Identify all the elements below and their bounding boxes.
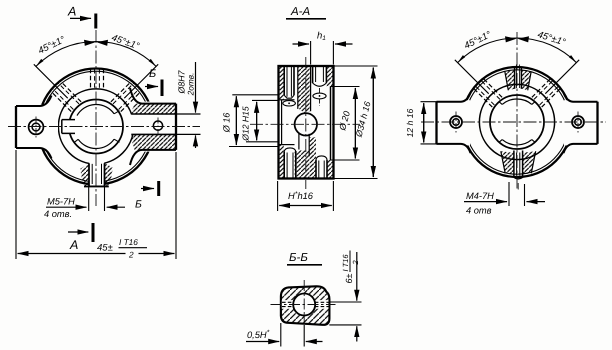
right ear Ø8 hole band blank: [125, 115, 176, 135]
svg-text:4 отв: 4 отв: [466, 206, 492, 216]
label A lower: [69, 238, 78, 252]
label M4-7H: [466, 191, 494, 216]
right view boss circle: [479, 84, 554, 159]
left view horizontal centerline: [8, 126, 200, 128]
right view bore circle: [490, 95, 544, 149]
right view vertical centerline: [516, 32, 518, 191]
A-A internal horizontal edges (bore steps): [279, 100, 295, 145]
section B-B body: [281, 286, 330, 325]
right view left ear blank: [434, 100, 470, 145]
right view upper-left 45deg M4 hole hidden lines: [473, 78, 503, 108]
svg-text:М5-7Н: М5-7Н: [47, 197, 75, 207]
left ear hole: [29, 117, 44, 138]
svg-text:А-А: А-А: [290, 6, 311, 18]
svg-text:0,5Н*: 0,5Н*: [247, 330, 270, 341]
svg-text:I T16: I T16: [341, 254, 350, 272]
right view right ear blank: [564, 100, 600, 145]
right ear outline: [130, 88, 176, 165]
svg-text:Ø 20: Ø 20: [337, 110, 352, 132]
A-A channel below circle: [299, 133, 309, 156]
right view left ear hole: [450, 112, 462, 133]
A-A bottom-left M5 hole: [284, 148, 296, 178]
bottom M5 section hatch left: [81, 163, 90, 186]
dimension Ø16: [229, 95, 279, 147]
svg-text:12 h 16: 12 h 16: [405, 108, 415, 137]
A-A bottom-right M5 hole: [316, 156, 327, 178]
label 0.5H*: [247, 330, 270, 341]
A-A hatch middle band: [298, 67, 311, 114]
right view horizontal centerline: [421, 121, 606, 123]
section plane B lower trace: [141, 181, 159, 196]
dimension 45 +- IT16/2: [16, 150, 176, 259]
bottom M5 section hatch right: [105, 163, 113, 186]
svg-text:Н*h16: Н*h16: [288, 191, 314, 201]
section plane B upper trace: [145, 80, 162, 97]
right view right ear hole: [572, 112, 584, 133]
bottom M5 hole blank: [89, 161, 104, 186]
svg-text:Ø12 Н15: Ø12 Н15: [241, 106, 251, 142]
bottom M5 hole walls and flat: [84, 163, 109, 186]
right ear section hatch bottom: [131, 134, 176, 150]
left view 45deg boundary lines: [34, 64, 158, 98]
svg-text:2: 2: [351, 260, 360, 266]
label Ø8H7 2otv: [177, 69, 196, 96]
label M5-7H: [44, 197, 75, 220]
left view bore inner relief arcs: [74, 104, 120, 148]
A-A centre cross-hole circle: [295, 113, 317, 135]
right view bottom M4 hole walls: [514, 151, 523, 190]
dimension Ø20: [331, 87, 360, 161]
right view 45deg boundary lines: [455, 60, 579, 94]
right view bore relief arcs: [499, 99, 536, 145]
left view chamfer circle: [41, 71, 152, 182]
A-A hatch left sliver top: [279, 67, 284, 100]
B-B hole channel blank: [282, 300, 329, 309]
section plane A upper trace: [70, 14, 96, 29]
dimension Ø34h16: [334, 66, 378, 179]
svg-text:6±: 6±: [344, 273, 354, 283]
svg-text:45°±1°: 45°±1°: [110, 32, 141, 52]
left view bore circle: [69, 100, 123, 154]
label Ø20: [337, 110, 352, 132]
svg-text:I T16: I T16: [119, 237, 138, 247]
A-A hatch right sliver top: [327, 67, 334, 87]
right view top M4 section hatch strips: [505, 70, 531, 90]
label 45 +- IT16/2: [97, 237, 147, 260]
right view angle dimension arc: [458, 36, 577, 62]
right view label 45 deg left: [462, 29, 493, 52]
label B upper: [149, 68, 156, 80]
B-B vertical centerline: [303, 280, 305, 325]
section plane A lower trace: [68, 223, 93, 242]
label 12h16: [405, 108, 415, 137]
label H* h16: [288, 191, 314, 201]
right view upper-right 45deg M4 hole hidden lines: [532, 78, 562, 108]
right view right ear outline: [564, 93, 598, 154]
right view top M4 hole walls: [515, 67, 522, 89]
dimension line Ø8H7: [176, 62, 201, 148]
label B lower: [135, 199, 142, 211]
right view bottom M4 section hatch strips: [501, 151, 536, 174]
title A-A: [286, 6, 326, 19]
svg-text:Ø34 h 16: Ø34 h 16: [353, 100, 372, 139]
right view label 45 deg right: [536, 29, 567, 48]
svg-text:45°±1°: 45°±1°: [462, 29, 493, 52]
right ear hole band edges: [131, 114, 176, 134]
section A-A outer rectangle: [279, 66, 334, 179]
A-A top-left M5 tapped hole: [283, 67, 296, 107]
svg-text:4 отв.: 4 отв.: [44, 209, 72, 219]
left view boss circle: [58, 89, 133, 164]
label 6 +- IT16/2: [341, 251, 360, 284]
right view left ear outline: [437, 93, 471, 154]
label A upper: [67, 5, 76, 19]
B-B channel hidden thread lines: [282, 302, 329, 306]
dimension 0.5H*: [246, 323, 323, 347]
A-A top-right M5 tapped hole: [313, 67, 327, 107]
svg-text:45±: 45±: [97, 243, 113, 254]
right view outer circle: [462, 67, 572, 177]
left ear blank: [13, 105, 58, 149]
label Ø34 h16: [353, 100, 372, 139]
left view vertical centerline: [95, 30, 97, 206]
label Ø12H15: [241, 106, 251, 142]
dimension 6 +- IT16/2: [329, 252, 361, 342]
left view outer circle Ø?: [38, 69, 154, 185]
top centre M5 hole hidden lines: [91, 69, 104, 90]
title B-B: [287, 252, 322, 265]
svg-text:2: 2: [128, 250, 134, 260]
svg-text:А: А: [67, 5, 76, 19]
bore keyway slot: [62, 120, 76, 134]
upper-right 45deg M5 hole hidden lines: [111, 81, 142, 112]
A-A vertical centerline: [305, 57, 307, 189]
dimension h1: [293, 41, 353, 65]
dimension M5-7H 4 holes: [46, 187, 125, 211]
dimension Ø12H15: [246, 100, 279, 141]
svg-text:Ø 16: Ø 16: [222, 113, 232, 134]
dimension H* h16: [278, 181, 334, 211]
svg-text:А: А: [69, 238, 78, 252]
right ear blank: [134, 102, 178, 152]
svg-text:М4-7Н: М4-7Н: [466, 191, 494, 201]
svg-text:2отв.: 2отв.: [186, 73, 196, 97]
svg-text:Б: Б: [149, 68, 156, 80]
dimension 12h16: [421, 102, 437, 144]
svg-text:Б: Б: [135, 199, 142, 211]
right view top M4 hole thread lines: [516, 65, 519, 89]
A-A hatch bottom middle: [295, 137, 334, 178]
label 45 deg right: [110, 32, 141, 52]
A-A horizontal centerline: [250, 123, 360, 125]
upper-left 45deg M5 hole hidden lines: [50, 81, 81, 112]
A-A internal vertical edges: [282, 67, 331, 161]
right view top M4 hole blank: [0, 0, 1, 1]
svg-text:h1: h1: [317, 31, 326, 43]
label h1: [317, 31, 326, 43]
left view angle dimension arc: [36, 40, 156, 67]
dimension M4-7H 4 holes: [464, 182, 545, 206]
svg-text:Б-Б: Б-Б: [289, 252, 308, 264]
B-B horizontal centerline: [271, 304, 336, 306]
right ear section hatch top: [131, 104, 176, 114]
label Ø16: [222, 113, 232, 134]
right view chamfer circle: [465, 70, 569, 174]
right ear cross hole circle: [153, 118, 162, 134]
B-B centre hole circle: [293, 294, 315, 316]
right view bottom M4 hole blank: [0, 0, 1, 1]
left ear outline: [16, 96, 52, 159]
label 45 deg left: [36, 34, 67, 57]
A-A hatch left sliver bottom: [279, 145, 284, 178]
